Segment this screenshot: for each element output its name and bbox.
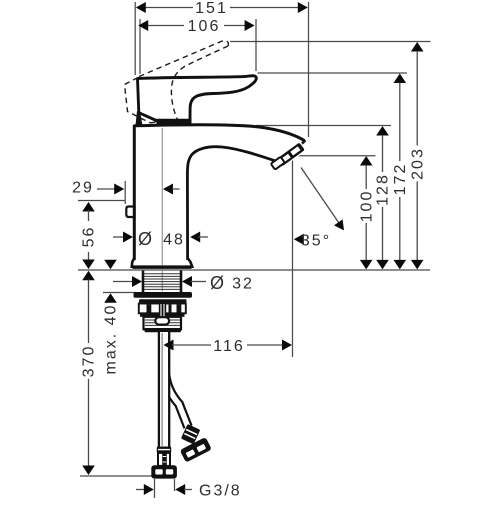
threaded shank [143, 271, 181, 292]
extension line right of 151 (spout tip) [308, 2, 310, 137]
mounting nut [139, 304, 186, 317]
angled hose [165, 336, 212, 463]
angled hose foot [180, 437, 212, 463]
temperature stop bump [126, 207, 134, 218]
dim 203 [409, 42, 426, 269]
svg-text:116: 116 [213, 338, 245, 355]
extension line aerator vertical [292, 159, 294, 357]
handle bottom bar [157, 119, 192, 124]
svg-text:56: 56 [81, 226, 98, 248]
dim diameter48 [113, 229, 208, 249]
faucet body and spout outline [134, 125, 304, 260]
svg-text:Ø: Ø [138, 229, 152, 249]
G3/8 left tick [154, 479, 156, 498]
spout underside [187, 147, 281, 260]
svg-text:Ø: Ø [210, 273, 224, 293]
reference line 128 (spout top) [256, 125, 391, 127]
extension line left of 106 (inner) [139, 19, 141, 74]
svg-text:106: 106 [188, 18, 221, 35]
svg-text:32: 32 [232, 275, 254, 292]
washer [139, 299, 187, 303]
dim diameter32 [113, 273, 254, 293]
hose bottom reference line [80, 475, 153, 477]
56 top reference line [78, 200, 125, 202]
dim G3/8 [136, 483, 242, 500]
spout nose face [283, 140, 306, 162]
svg-text:100: 100 [358, 190, 375, 223]
lower shank section [144, 317, 182, 332]
straight hose collar [157, 447, 171, 453]
dim 35 degrees leader [294, 168, 344, 250]
deck reference line [78, 269, 430, 271]
flange [134, 292, 193, 298]
straight hose connector body [158, 453, 170, 466]
dim 56 [81, 202, 98, 269]
svg-text:max. 40: max. 40 [103, 304, 120, 375]
svg-text:151: 151 [195, 0, 228, 17]
svg-text:128: 128 [375, 173, 392, 206]
reference line 203 (dashed handle top) [230, 41, 431, 43]
dim 29 [72, 180, 179, 197]
svg-text:48: 48 [163, 231, 185, 248]
svg-text:203: 203 [409, 147, 426, 180]
pull rod pill [155, 317, 169, 324]
dim max.40 [103, 260, 120, 375]
handle left base corner [136, 111, 143, 125]
dim 100 [358, 156, 375, 269]
flange reference line (max40) [103, 292, 136, 294]
svg-text:G3/8: G3/8 [199, 483, 242, 500]
dashed raised handle outline [125, 41, 229, 123]
extension line left of 151/106 [134, 2, 136, 75]
G3/8 right tick [174, 479, 176, 491]
dim 370 [81, 271, 98, 475]
extension line right of 106 (handle tip) [255, 19, 257, 71]
svg-text:370: 370 [81, 345, 98, 378]
straight hose foot [151, 465, 177, 478]
pull rod through nut [155, 304, 169, 325]
29 left tick [124, 181, 126, 204]
straight hose [151, 332, 177, 479]
aerator band [276, 142, 306, 168]
dim 128 [375, 126, 392, 269]
angled hose collar [181, 424, 200, 444]
svg-text:29: 29 [72, 180, 94, 197]
dim 172 [392, 74, 409, 270]
svg-text:172: 172 [392, 163, 409, 196]
body bottom with flares [132, 258, 192, 267]
dim 106 [138, 18, 254, 35]
reference line 100 (aerator) [293, 155, 376, 157]
center line of body [161, 128, 163, 292]
faucet handle (solid) [136, 76, 257, 125]
dim 151 [136, 0, 308, 17]
aerator end cap [271, 157, 285, 170]
svg-text:35°: 35° [301, 233, 331, 250]
dim 116 [164, 338, 293, 355]
reference line 172 (handle top) [258, 72, 408, 74]
